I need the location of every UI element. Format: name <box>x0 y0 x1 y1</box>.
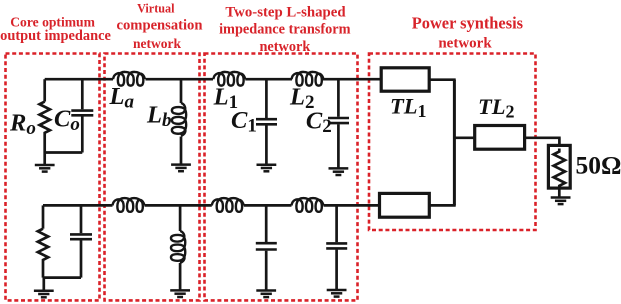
inductor Lb bottom shunt <box>179 205 182 289</box>
capacitor C2 <box>328 79 349 168</box>
transmission line TL1 top <box>381 68 429 91</box>
box: power synthesis network <box>369 54 536 231</box>
ground <box>171 165 191 172</box>
load resistor 50 ohm box <box>548 145 570 188</box>
ground <box>329 168 349 175</box>
svg-text:Virtual: Virtual <box>137 2 175 16</box>
wire: TL2 input <box>454 136 474 139</box>
svg-text:Ro: Ro <box>9 109 36 139</box>
inductor La <box>113 72 145 86</box>
wire: TL2 output <box>525 138 561 146</box>
svg-text:network: network <box>133 36 181 51</box>
inductor Lb shunt <box>180 79 183 164</box>
capacitor Co bottom <box>70 205 92 277</box>
ground <box>551 198 571 205</box>
wire: to ground <box>42 278 45 291</box>
wire: load to ground <box>558 188 561 197</box>
ground <box>256 291 276 298</box>
box: virtual compensation network <box>105 54 200 301</box>
svg-text:compensation: compensation <box>117 18 203 34</box>
svg-text:TL1: TL1 <box>390 94 427 122</box>
ground <box>34 291 54 298</box>
svg-text:50Ω: 50Ω <box>576 151 621 180</box>
svg-text:Lb: Lb <box>146 102 171 132</box>
inductor La bottom <box>113 198 145 212</box>
ground <box>35 165 55 172</box>
svg-text:Power synthesis: Power synthesis <box>412 14 523 33</box>
svg-text:Two-step L-shaped: Two-step L-shaped <box>225 5 346 21</box>
inductor L2 <box>292 72 324 86</box>
box: two-step L-shaped impedance transform network <box>205 54 358 301</box>
transmission line TL2 <box>475 126 525 150</box>
ground <box>327 290 347 297</box>
ground <box>170 290 190 297</box>
inductor L1 <box>213 72 245 86</box>
wire: bottom RC tank bottom <box>43 276 81 279</box>
resistor zigzag 50 ohm <box>554 149 565 189</box>
inductor L1 bottom <box>212 198 244 212</box>
wire: bottom main rail <box>43 204 380 207</box>
capacitor C2 bottom <box>326 205 347 289</box>
wire: top main rail <box>45 78 382 81</box>
box: core optimum output impedance <box>6 54 100 301</box>
transmission line TL1 bottom <box>380 193 430 217</box>
svg-text:La: La <box>109 83 135 113</box>
wire: TL1 output <box>429 78 456 81</box>
wire: TL1 bottom output <box>429 204 455 207</box>
capacitor C1 bottom <box>256 205 277 290</box>
capacitor C1 <box>256 79 277 164</box>
svg-text:output impedance: output impedance <box>0 28 111 44</box>
inductor L2 bottom <box>292 198 324 212</box>
svg-text:TL2: TL2 <box>478 94 515 122</box>
svg-text:network: network <box>259 39 310 55</box>
wire: bottom of RC tank <box>45 151 83 154</box>
svg-text:C2: C2 <box>306 107 332 137</box>
ground <box>257 165 277 172</box>
resistor Ro <box>40 79 50 152</box>
wire: combiner vertical <box>453 80 456 206</box>
svg-text:network: network <box>438 36 492 52</box>
svg-text:C1: C1 <box>231 107 257 137</box>
wire: to ground <box>43 153 46 165</box>
resistor Ro bottom <box>38 205 48 277</box>
svg-text:impedance transform: impedance transform <box>219 22 351 38</box>
capacitor Co <box>71 79 93 152</box>
